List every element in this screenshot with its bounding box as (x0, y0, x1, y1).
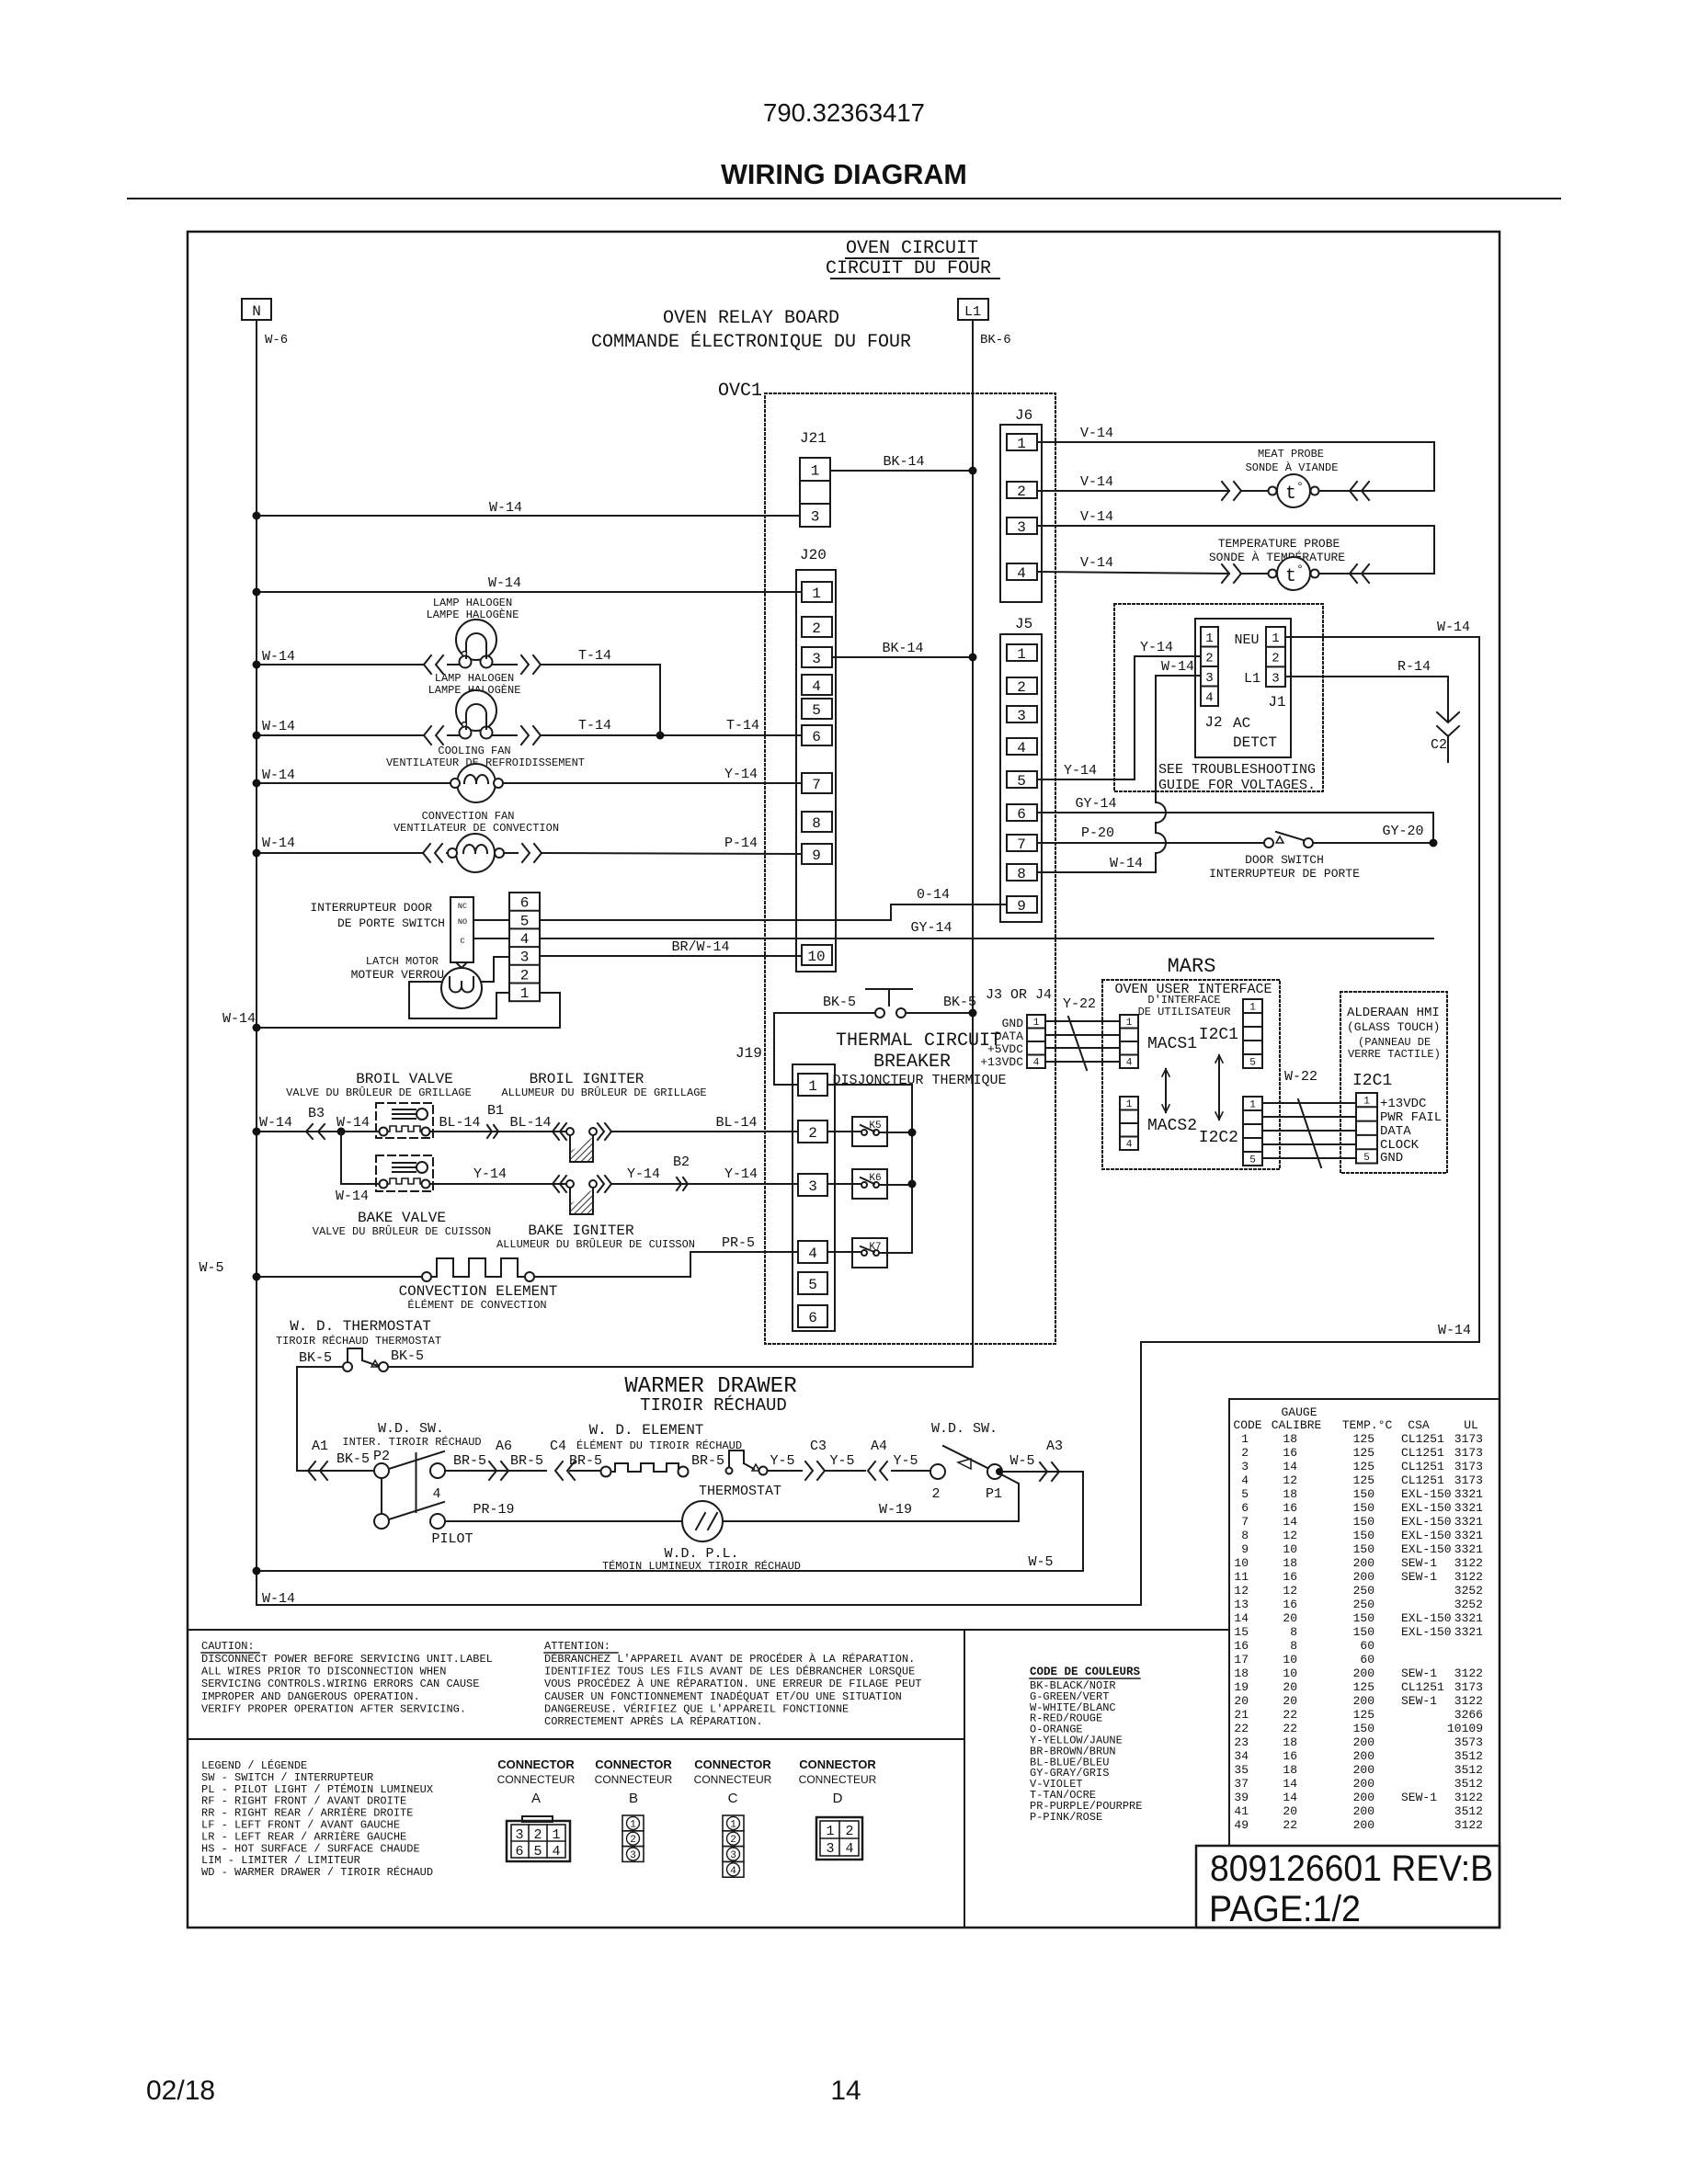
connector J5 pin 1 (1007, 644, 1037, 661)
svg-text:BK-5: BK-5 (391, 1348, 424, 1364)
connector A diagram (522, 1816, 553, 1822)
relay K6 (852, 1169, 887, 1199)
svg-text:22: 22 (1234, 1722, 1249, 1735)
wire P1 to pilot lamp W-19 (999, 1473, 1019, 1521)
svg-text:3173: 3173 (1454, 1432, 1483, 1446)
svg-text:P2: P2 (373, 1449, 390, 1464)
svg-text:GUIDE FOR VOLTAGES.: GUIDE FOR VOLTAGES. (1158, 778, 1316, 793)
svg-text:12: 12 (1283, 1584, 1297, 1598)
svg-text:V-14: V-14 (1080, 555, 1113, 571)
svg-text:10: 10 (1283, 1653, 1297, 1666)
svg-text:2: 2 (931, 1486, 940, 1502)
svg-text:3252: 3252 (1454, 1584, 1483, 1598)
oven relay board dashed outline (765, 393, 1055, 1344)
svg-text:200: 200 (1353, 1804, 1374, 1818)
svg-text:3: 3 (826, 1841, 834, 1857)
svg-text:W-22: W-22 (1284, 1069, 1317, 1085)
svg-text:200: 200 (1353, 1791, 1374, 1804)
connector I2C2 column (1243, 1097, 1262, 1166)
svg-text:7: 7 (812, 777, 821, 793)
svg-text:4: 4 (432, 1486, 440, 1502)
svg-text:DATA: DATA (1380, 1124, 1411, 1139)
svg-text:14: 14 (1283, 1791, 1297, 1804)
broil igniter symbol (553, 1123, 559, 1140)
svg-text:6: 6 (520, 895, 530, 912)
svg-text:15: 15 (1234, 1625, 1249, 1639)
connector J5 pin 3 (1007, 706, 1037, 722)
svg-text:EXL-150: EXL-150 (1401, 1501, 1452, 1515)
svg-text:SONDE À VIANDE: SONDE À VIANDE (1246, 461, 1339, 474)
svg-text:49: 49 (1234, 1818, 1249, 1832)
svg-text:UL: UL (1464, 1418, 1478, 1432)
wire BR-5 to element (570, 1470, 601, 1472)
svg-text:+5VDC: +5VDC (987, 1042, 1023, 1056)
svg-text:P-20: P-20 (1081, 825, 1114, 841)
svg-text:8: 8 (1290, 1639, 1297, 1653)
svg-text:V-14: V-14 (1080, 474, 1113, 490)
wd thermostat symbol BK-5 (297, 1366, 343, 1368)
svg-text:CONVECTION ELEMENT: CONVECTION ELEMENT (399, 1283, 558, 1300)
connector arrows A3 (1052, 1462, 1059, 1481)
svg-text:W-14: W-14 (489, 500, 522, 516)
junction dot W-14 bus latch (253, 1024, 261, 1032)
svg-text:EXL-150: EXL-150 (1401, 1529, 1452, 1542)
svg-text:CONNECTEUR: CONNECTEUR (694, 1773, 772, 1786)
svg-text:INTERRUPTEUR DOOR: INTERRUPTEUR DOOR (310, 901, 432, 915)
svg-text:BR-5: BR-5 (569, 1453, 602, 1469)
svg-text:DANGEREUSE. VÉRIFIEZ QUE L'APP: DANGEREUSE. VÉRIFIEZ QUE L'APPAREIL FONC… (544, 1701, 849, 1715)
wire PR-19 pilot (445, 1520, 682, 1522)
svg-text:3266: 3266 (1454, 1708, 1483, 1722)
svg-text:9: 9 (1017, 898, 1026, 915)
connector J20 pin 5 (802, 699, 832, 719)
svg-text:BL-14: BL-14 (439, 1115, 480, 1131)
svg-text:T-14: T-14 (578, 718, 611, 734)
svg-text:A6: A6 (496, 1439, 512, 1454)
svg-text:MARS: MARS (1168, 955, 1216, 978)
svg-text:CONNECTEUR: CONNECTEUR (799, 1773, 877, 1786)
svg-text:2: 2 (1017, 483, 1026, 500)
svg-text:13: 13 (1234, 1598, 1249, 1611)
svg-text:1: 1 (1272, 631, 1279, 646)
svg-text:Y-5: Y-5 (893, 1453, 918, 1469)
svg-text:1: 1 (808, 1078, 817, 1095)
connector J19 pin 4 (798, 1241, 827, 1263)
wire P-20 J5 pin7 to door switch (1037, 842, 1264, 844)
svg-text:5: 5 (808, 1277, 817, 1293)
svg-text:1: 1 (1017, 646, 1026, 663)
svg-text:VERRE TACTILE): VERRE TACTILE) (1348, 1048, 1441, 1061)
svg-text:3321: 3321 (1454, 1529, 1483, 1542)
connector J20 pin 7 (802, 773, 832, 793)
svg-text:I2C1: I2C1 (1352, 1072, 1392, 1090)
svg-text:OVC1: OVC1 (718, 381, 762, 402)
svg-text:Y-5: Y-5 (770, 1453, 794, 1469)
svg-text:SEE TROUBLESHOOTING: SEE TROUBLESHOOTING (1158, 762, 1316, 778)
svg-text:3321: 3321 (1454, 1542, 1483, 1556)
svg-text:SEW-1: SEW-1 (1401, 1556, 1437, 1570)
connector J20 pin 3 (802, 647, 832, 667)
svg-text:A3: A3 (1046, 1439, 1063, 1454)
svg-text:3122: 3122 (1454, 1818, 1483, 1832)
svg-text:5: 5 (1249, 1155, 1256, 1166)
svg-text:790.32363417: 790.32363417 (763, 98, 925, 127)
svg-text:A4: A4 (871, 1439, 887, 1454)
wire R-14 J1 pin3 to C2 (1285, 677, 1448, 722)
svg-text:CONNECTOR: CONNECTOR (497, 1757, 575, 1771)
wire PR-5 element to J19 pin4 (534, 1252, 798, 1277)
junction dot T-14 (656, 732, 665, 740)
svg-text:4: 4 (808, 1246, 817, 1262)
svg-text:P1: P1 (986, 1486, 1002, 1502)
svg-text:J3 OR J4: J3 OR J4 (986, 987, 1052, 1003)
svg-text:W.D. SW.: W.D. SW. (931, 1421, 998, 1437)
svg-text:10109: 10109 (1447, 1722, 1483, 1735)
junction dot BK-14 L1 bus (969, 467, 977, 475)
wire W-5 to A3 (1002, 1471, 1062, 1473)
connector J5 pin 6 (1007, 804, 1037, 821)
wire GY-14 door pin4 to door switch net (540, 938, 1433, 939)
svg-text:CAUTION:: CAUTION: (201, 1640, 255, 1653)
svg-text:37: 37 (1234, 1777, 1249, 1791)
svg-text:C2: C2 (1431, 737, 1447, 753)
svg-text:4: 4 (1241, 1473, 1249, 1487)
svg-text:2: 2 (1272, 652, 1279, 666)
svg-text:J6: J6 (1015, 407, 1032, 424)
svg-text:SEW-1: SEW-1 (1401, 1694, 1437, 1708)
svg-text:2: 2 (533, 1827, 542, 1843)
svg-text:BK-14: BK-14 (882, 641, 923, 656)
cooling fan motor symbol (457, 764, 496, 802)
svg-text:20: 20 (1283, 1804, 1297, 1818)
svg-text:19: 19 (1234, 1680, 1249, 1694)
svg-text:SERVICING CONTROLS.WIRING ERRO: SERVICING CONTROLS.WIRING ERRORS CAN CAU… (201, 1678, 479, 1690)
wire Y-14 igniter to J19 pin3 (612, 1183, 798, 1185)
svg-text:BK-5: BK-5 (943, 995, 976, 1010)
svg-text:Y-14: Y-14 (724, 1166, 758, 1182)
svg-text:IMPROPER AND DANGEROUS OPERATI: IMPROPER AND DANGEROUS OPERATION. (201, 1690, 420, 1703)
svg-text:ALLUMEUR DU BRÛLEUR DE CUISSON: ALLUMEUR DU BRÛLEUR DE CUISSON (496, 1237, 695, 1251)
wire W-6/W-14 neutral bus vertical (256, 320, 257, 1605)
svg-text:THERMAL CIRCUIT: THERMAL CIRCUIT (836, 1030, 1001, 1052)
connector arrows meat probe (1234, 482, 1241, 500)
connector arrows B3 (306, 1124, 313, 1139)
svg-text:4: 4 (1126, 1058, 1133, 1069)
convection element symbol (422, 1272, 431, 1281)
svg-text:3: 3 (520, 950, 530, 966)
ALDERAAN HMI dashed box (1340, 992, 1447, 1173)
svg-text:150: 150 (1353, 1611, 1374, 1625)
svg-text:8: 8 (1290, 1625, 1297, 1639)
svg-text:3122: 3122 (1454, 1570, 1483, 1584)
svg-text:200: 200 (1353, 1749, 1374, 1763)
connector arrows lamp 1 (424, 655, 431, 674)
svg-text:LEGEND / LÉGENDE: LEGEND / LÉGENDE (201, 1758, 307, 1772)
connector J5 pin 9 (1007, 896, 1037, 913)
svg-text:200: 200 (1353, 1556, 1374, 1570)
svg-text:12: 12 (1283, 1473, 1297, 1487)
svg-text:1: 1 (630, 1819, 636, 1830)
svg-text:BK-6: BK-6 (980, 333, 1011, 347)
revision box 809126601 REV:B PAGE:1/2 (1196, 1846, 1500, 1928)
svg-text:VALVE DU BRÛLEUR DE CUISSON: VALVE DU BRÛLEUR DE CUISSON (313, 1224, 491, 1238)
svg-text:BK-5: BK-5 (823, 995, 856, 1010)
svg-text:MOTEUR VERROU: MOTEUR VERROU (351, 968, 444, 982)
connector J6 pin 2 (1007, 482, 1037, 498)
svg-text:125: 125 (1353, 1708, 1374, 1722)
svg-text:IDENTIFIEZ TOUS LES FILS AVANT: IDENTIFIEZ TOUS LES FILS AVANT DE LES DÉ… (544, 1665, 915, 1678)
svg-text:I2C2: I2C2 (1199, 1129, 1238, 1147)
svg-text:C: C (460, 937, 464, 946)
svg-text:N: N (252, 303, 261, 320)
svg-text:3573: 3573 (1454, 1735, 1483, 1749)
svg-text:3: 3 (811, 508, 820, 525)
svg-text:BR/W-14: BR/W-14 (671, 939, 729, 955)
svg-text:TIROIR RÉCHAUD: TIROIR RÉCHAUD (640, 1395, 787, 1416)
wire Y-14 J5 pin5 to J2 pin2 (1037, 656, 1201, 779)
svg-text:1: 1 (520, 985, 530, 1002)
svg-text:150: 150 (1353, 1722, 1374, 1735)
wire BL-14 igniter to J19 pin2 (612, 1131, 798, 1132)
wire P-14 convection fan to J20 pin9 (542, 853, 802, 854)
svg-text:16: 16 (1283, 1501, 1297, 1515)
svg-text:8: 8 (1017, 866, 1026, 882)
wire GY-14 J5 pin6 (1037, 813, 1433, 843)
svg-text:MEAT PROBE: MEAT PROBE (1258, 448, 1324, 461)
connector J5 pin 5 (1007, 771, 1037, 788)
AC DETCT dotted enclosure (1114, 604, 1323, 791)
svg-text:+13VDC: +13VDC (1380, 1097, 1426, 1111)
svg-text:4: 4 (1205, 690, 1213, 705)
svg-text:125: 125 (1353, 1432, 1374, 1446)
connector I2C1 column (1243, 999, 1262, 1068)
svg-text:GND: GND (1002, 1017, 1024, 1030)
connector J5 pin 4 (1007, 738, 1037, 755)
svg-text:+13VDC: +13VDC (980, 1055, 1023, 1069)
svg-text:A: A (531, 1791, 541, 1806)
svg-text:W-5: W-5 (1009, 1453, 1034, 1469)
temperature probe right lead with arrows (1319, 573, 1434, 574)
svg-text:200: 200 (1353, 1763, 1374, 1777)
svg-text:3321: 3321 (1454, 1515, 1483, 1529)
wire W-14 to J20 pin1 (257, 591, 802, 593)
svg-text:ÉLÉMENT DU TIROIR RÉCHAUD: ÉLÉMENT DU TIROIR RÉCHAUD (576, 1439, 742, 1452)
svg-text:10: 10 (807, 949, 825, 965)
svg-text:L1: L1 (964, 304, 981, 320)
wires I2C2 to ALDERAAN I2C1 (1262, 1102, 1356, 1104)
svg-text:Y-14: Y-14 (473, 1166, 507, 1182)
svg-text:°: ° (1296, 563, 1304, 576)
svg-text:3: 3 (630, 1850, 636, 1861)
wire W-14 to J21 pin3 (257, 515, 800, 517)
svg-text:1: 1 (1126, 1018, 1133, 1029)
svg-text:18: 18 (1283, 1763, 1297, 1777)
svg-text:A1: A1 (312, 1439, 328, 1454)
wire V-14 J6 pin3 temp probe loop (1037, 526, 1434, 574)
svg-text:BR-5: BR-5 (510, 1453, 543, 1469)
svg-text:Y-14: Y-14 (1140, 640, 1173, 655)
svg-text:3252: 3252 (1454, 1598, 1483, 1611)
svg-text:J20: J20 (800, 547, 827, 563)
svg-text:CONNECTEUR: CONNECTEUR (497, 1773, 576, 1786)
svg-text:16: 16 (1283, 1598, 1297, 1611)
connector J2 pins 1-4 (1201, 627, 1218, 706)
wire W-14 cooling fan row (257, 782, 457, 784)
svg-text:OVEN RELAY BOARD: OVEN RELAY BOARD (663, 308, 839, 329)
svg-text:150: 150 (1353, 1625, 1374, 1639)
connector MACS2 column (1120, 1097, 1138, 1150)
svg-text:150: 150 (1353, 1515, 1374, 1529)
svg-text:3173: 3173 (1454, 1473, 1483, 1487)
svg-text:J21: J21 (800, 430, 827, 447)
svg-text:OVEN CIRCUIT: OVEN CIRCUIT (846, 238, 978, 259)
wire Y-5 to wd switch 2 (892, 1470, 930, 1472)
svg-text:GAUGE: GAUGE (1281, 1405, 1317, 1419)
svg-text:CONVECTION FAN: CONVECTION FAN (422, 810, 515, 823)
svg-text:PR-5: PR-5 (722, 1235, 755, 1251)
connector arrows A4 (868, 1462, 875, 1480)
svg-text:14: 14 (1283, 1460, 1297, 1473)
junction dot K5 output (908, 1129, 917, 1137)
node L1 terminal box (958, 299, 988, 320)
svg-text:CIRCUIT DU FOUR: CIRCUIT DU FOUR (826, 258, 991, 279)
svg-text:CONNECTOR: CONNECTOR (694, 1757, 771, 1771)
svg-text:I2C1: I2C1 (1199, 1026, 1238, 1044)
svg-text:BL-14: BL-14 (715, 1115, 757, 1131)
svg-text:20: 20 (1283, 1611, 1297, 1625)
svg-text:SEW-1: SEW-1 (1401, 1570, 1437, 1584)
svg-text:1: 1 (1017, 436, 1026, 452)
gauge table box (1229, 1399, 1500, 1846)
wire BK-5 thermostat to L1 bus (388, 1366, 973, 1368)
svg-text:W-19: W-19 (879, 1502, 912, 1518)
svg-text:3173: 3173 (1454, 1680, 1483, 1694)
connector arrows A6 (501, 1462, 508, 1480)
svg-text:PR-19: PR-19 (473, 1502, 514, 1518)
svg-text:200: 200 (1353, 1666, 1374, 1680)
svg-text:150: 150 (1353, 1487, 1374, 1501)
connector arrows B1 (487, 1125, 492, 1138)
wire A3 W-5 return loop (257, 1472, 1083, 1571)
svg-text:3: 3 (812, 651, 821, 667)
svg-text:4: 4 (730, 1866, 736, 1877)
connector arrows temperature probe (1234, 564, 1241, 583)
connector J5 pin 7 (1007, 835, 1037, 851)
connector arrows A1 (308, 1462, 315, 1480)
svg-text:1: 1 (730, 1819, 736, 1830)
svg-text:5: 5 (1363, 1153, 1370, 1164)
svg-text:4: 4 (1126, 1140, 1133, 1151)
svg-text:CONNECTEUR: CONNECTEUR (595, 1773, 673, 1786)
svg-text:Y-14: Y-14 (1064, 763, 1097, 779)
svg-text:3173: 3173 (1454, 1460, 1483, 1473)
svg-text:200: 200 (1353, 1818, 1374, 1832)
wire W-14 broil row from bus (257, 1131, 380, 1132)
wire W-14 lamp halogen row 1 (257, 664, 424, 665)
meat probe symbol t (1269, 487, 1277, 495)
svg-text:DATA: DATA (995, 1029, 1023, 1043)
connector C2 arrows (1437, 712, 1459, 736)
svg-text:2: 2 (630, 1835, 636, 1846)
wire BL-14 broil valve to igniter (430, 1131, 566, 1132)
svg-text:W-14: W-14 (262, 1591, 295, 1607)
svg-text:PL - PILOT LIGHT / PTÉMOIN LUM: PL - PILOT LIGHT / PTÉMOIN LUMINEUX (201, 1782, 433, 1796)
connector C diagram (723, 1815, 744, 1831)
connector J5 pin 2 (1007, 677, 1037, 694)
svg-text:16: 16 (1283, 1749, 1297, 1763)
svg-text:3: 3 (1272, 671, 1279, 686)
svg-text:COOLING FAN: COOLING FAN (438, 745, 510, 757)
wire W-5 convection element from bus (257, 1276, 423, 1278)
svg-text:TIROIR RÉCHAUD THERMOSTAT: TIROIR RÉCHAUD THERMOSTAT (276, 1334, 441, 1348)
svg-text:3122: 3122 (1454, 1556, 1483, 1570)
svg-text:10: 10 (1283, 1666, 1297, 1680)
svg-text:C3: C3 (810, 1439, 827, 1454)
svg-text:18: 18 (1283, 1487, 1297, 1501)
double arrow MACS1-MACS2 (1165, 1069, 1167, 1112)
double arrow I2C1-I2C2 (1218, 1055, 1220, 1120)
svg-text:1: 1 (1249, 1002, 1256, 1013)
svg-text:V-14: V-14 (1080, 509, 1113, 525)
bake valve symbol (376, 1155, 433, 1191)
svg-text:1: 1 (552, 1827, 560, 1843)
connector J20 pin 10 (802, 945, 832, 965)
svg-text:ÉLÉMENT DE CONVECTION: ÉLÉMENT DE CONVECTION (407, 1298, 546, 1312)
connector J1 pins 1-3 (1266, 627, 1285, 687)
wd pilot switch pole 2 (374, 1514, 389, 1529)
broil valve symbol (376, 1103, 433, 1138)
svg-text:3122: 3122 (1454, 1694, 1483, 1708)
svg-text:17: 17 (1234, 1653, 1249, 1666)
svg-text:CONNECTOR: CONNECTOR (595, 1757, 672, 1771)
svg-text:SEW-1: SEW-1 (1401, 1666, 1437, 1680)
svg-text:WIRING DIAGRAM: WIRING DIAGRAM (721, 159, 967, 190)
svg-text:ALDERAAN HMI: ALDERAAN HMI (1347, 1006, 1440, 1020)
svg-text:DE PORTE SWITCH: DE PORTE SWITCH (337, 916, 445, 930)
connector J20 pin 9 (802, 844, 832, 864)
svg-text:P-14: P-14 (724, 836, 758, 851)
wd switch 2 contact 2 (930, 1464, 945, 1479)
svg-text:INTERRUPTEUR DE PORTE: INTERRUPTEUR DE PORTE (1209, 867, 1360, 881)
svg-text:W-14: W-14 (262, 719, 295, 734)
temperature probe symbol t (1269, 570, 1277, 578)
svg-text:3: 3 (1017, 519, 1026, 536)
connector J6 pin 3 (1007, 518, 1037, 534)
connector arrows B2 (677, 1177, 681, 1190)
connector arrows convection fan (423, 844, 430, 862)
svg-text:809126601 REV:B: 809126601 REV:B (1210, 1848, 1493, 1889)
wire L1 bus vertical BK-6 (972, 320, 974, 1367)
connector HMI I2C1 column (1356, 1093, 1377, 1164)
svg-text:14: 14 (830, 2076, 861, 2106)
svg-text:250: 250 (1353, 1584, 1374, 1598)
wire W-14 convection fan row (257, 852, 423, 854)
svg-text:INTER. TIROIR RÉCHAUD: INTER. TIROIR RÉCHAUD (342, 1435, 481, 1449)
svg-text:23: 23 (1234, 1735, 1249, 1749)
door switch contact column pins 6-1 (509, 893, 540, 1001)
svg-text:BR-5: BR-5 (453, 1453, 486, 1469)
svg-text:W-14: W-14 (222, 1011, 256, 1027)
svg-text:20: 20 (1283, 1694, 1297, 1708)
svg-text:60: 60 (1360, 1653, 1374, 1666)
svg-text:LATCH MOTOR: LATCH MOTOR (366, 955, 439, 968)
svg-text:7: 7 (1241, 1515, 1249, 1529)
svg-text:3: 3 (808, 1178, 817, 1195)
svg-text:L1: L1 (1244, 671, 1260, 687)
svg-text:W-14: W-14 (262, 768, 295, 783)
bundle slash Y-22 (1068, 1017, 1087, 1070)
divider vertical right of caution (964, 1630, 965, 1928)
